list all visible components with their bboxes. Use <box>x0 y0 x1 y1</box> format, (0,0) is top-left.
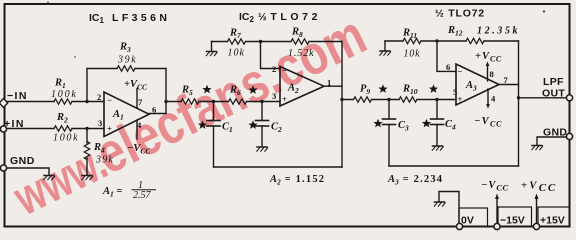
wire C3 feedback bottom <box>389 165 519 167</box>
svg-text:−VCC: −VCC <box>481 180 509 193</box>
terminal 0V <box>456 223 462 229</box>
pin 4 lead A1 <box>136 120 138 139</box>
op-amp A3 <box>456 64 499 105</box>
svg-text:0V: 0V <box>461 215 474 227</box>
ground at R7 left <box>211 42 213 51</box>
star R10 <box>429 84 438 93</box>
svg-text:LF356N: LF356N <box>112 12 170 24</box>
svg-text:GND: GND <box>10 155 35 167</box>
svg-text:−15V: −15V <box>500 215 525 227</box>
capacitor C3 <box>388 100 390 119</box>
wire feedback right vertical <box>165 69 167 114</box>
scan speck <box>47 2 49 4</box>
resistor R1 <box>54 99 72 104</box>
svg-text:12.35k: 12.35k <box>477 26 520 37</box>
wire A3 output vertical <box>518 41 520 166</box>
node A2 out takeoff <box>340 98 343 101</box>
ground below R4 <box>82 176 93 180</box>
resistor P9 <box>354 97 372 102</box>
ground at GND lead <box>44 176 55 180</box>
svg-text:GND: GND <box>543 127 567 139</box>
svg-text:6: 6 <box>152 105 156 115</box>
ground right GND <box>532 146 543 150</box>
star C2 <box>248 120 257 128</box>
node R7 R8 junction <box>259 40 262 43</box>
svg-text:3: 3 <box>272 91 276 101</box>
svg-text:39k: 39k <box>117 55 137 66</box>
svg-text:1.52k: 1.52k <box>288 48 314 59</box>
svg-text:1: 1 <box>327 78 331 88</box>
wire +VCC supply arrow <box>536 197 538 227</box>
svg-text:OUT: OUT <box>542 88 565 100</box>
star C4 <box>422 119 431 128</box>
box +15V label <box>538 207 570 227</box>
wire GND terminal <box>7 168 49 175</box>
svg-text:2.57: 2.57 <box>133 190 152 201</box>
wire A1 output <box>149 113 166 115</box>
svg-text:−IN: −IN <box>7 90 28 102</box>
node R11 R12 junction <box>435 39 438 42</box>
capacitor C4 <box>436 100 438 119</box>
pin 7 lead A1 <box>136 89 138 109</box>
capacitor C1 <box>213 102 215 121</box>
watermark www.elecfans.com <box>5 134 116 226</box>
svg-text:−: − <box>458 67 463 77</box>
resistor R11 <box>403 38 421 43</box>
wire -VCC supply arrow <box>496 197 498 227</box>
svg-text:+: + <box>282 94 287 104</box>
node C1 top <box>212 100 215 103</box>
terminal +15V <box>533 223 539 229</box>
node C2 top <box>260 100 263 103</box>
svg-text:−: − <box>282 66 287 76</box>
wire A2 top rail <box>212 41 343 43</box>
wire right GND <box>537 137 567 145</box>
resistor R8 <box>291 39 309 44</box>
resistor R4 <box>86 129 88 144</box>
node C3 top <box>387 98 390 101</box>
scan speck <box>74 56 76 58</box>
node R5 takeoff <box>164 100 167 103</box>
terminal GND left <box>0 165 6 171</box>
op-amp A2 <box>280 67 324 107</box>
capacitor C2 <box>261 102 263 121</box>
pin 4 arrow A3 <box>487 89 489 106</box>
op-amp A1 <box>104 92 149 137</box>
terminal -15V <box>494 223 500 229</box>
star C3 <box>373 119 382 128</box>
svg-text:2: 2 <box>272 64 276 74</box>
wire pin2 drop A2 <box>261 42 281 69</box>
wire A3 top rail <box>385 40 519 42</box>
svg-text:−: − <box>107 95 112 105</box>
node C4 top <box>435 98 438 101</box>
terminal +IN <box>0 126 6 132</box>
svg-text:+IN: +IN <box>4 118 25 130</box>
svg-text:LPF: LPF <box>543 76 564 88</box>
svg-text:100k: 100k <box>51 89 78 100</box>
wire feedback top rail <box>87 68 166 70</box>
svg-text:+: + <box>458 94 463 104</box>
star C1 <box>198 120 207 128</box>
wire to LPF OUT <box>519 97 567 99</box>
wire A3 output <box>499 84 519 86</box>
box 0V label <box>459 208 488 227</box>
resistor R7 <box>228 39 246 44</box>
wire feedback left vertical <box>86 69 88 102</box>
resistor R12 <box>466 38 484 43</box>
svg-text:100k: 100k <box>53 133 79 144</box>
terminal LPF OUT <box>566 95 572 101</box>
star R6 <box>248 85 257 94</box>
ground at R11 left <box>384 41 386 50</box>
svg-text:6: 6 <box>446 62 450 72</box>
svg-text:+15V: +15V <box>540 215 565 227</box>
node LPF takeoff <box>517 96 520 99</box>
wire interstage R5 R6 <box>166 101 280 103</box>
svg-text:10k: 10k <box>404 49 421 60</box>
wire +IN input <box>7 128 104 130</box>
wire C1 feedback bottom <box>214 166 343 168</box>
wire -IN input <box>7 101 104 103</box>
resistor R6 <box>229 99 247 104</box>
svg-text:½TLO72: ½TLO72 <box>258 11 321 23</box>
svg-text:+: + <box>107 124 112 134</box>
terminal GND right <box>566 133 572 139</box>
wire A2 output vertical <box>341 42 343 168</box>
resistor R5 <box>181 99 199 104</box>
star P9 <box>378 84 387 93</box>
scan speck <box>543 10 545 12</box>
svg-text:39k: 39k <box>95 155 114 166</box>
wire pin6 drop A3 <box>437 41 456 71</box>
svg-text:8: 8 <box>490 69 494 79</box>
wire interstage R9 R10 <box>342 99 456 101</box>
svg-text:3: 3 <box>98 118 102 128</box>
wire A2 output <box>324 85 342 87</box>
svg-text:10k: 10k <box>228 48 245 59</box>
ground below C4 <box>432 146 443 150</box>
pin 8 arrow A3 <box>487 64 489 81</box>
svg-text:2: 2 <box>97 92 101 102</box>
box -15V label <box>498 207 532 227</box>
resistor R2 <box>54 126 72 131</box>
node pin3 junction <box>85 127 88 130</box>
wire 0V bracket <box>439 192 459 227</box>
ground 0V <box>434 202 445 206</box>
ground below C2 <box>257 147 268 151</box>
node pin2 junction <box>85 100 88 103</box>
svg-text:½ TLO72: ½ TLO72 <box>435 8 485 20</box>
star R5 <box>202 85 211 94</box>
resistor R3 <box>117 66 135 71</box>
resistor R10 <box>399 97 417 102</box>
terminal -IN <box>0 99 8 108</box>
